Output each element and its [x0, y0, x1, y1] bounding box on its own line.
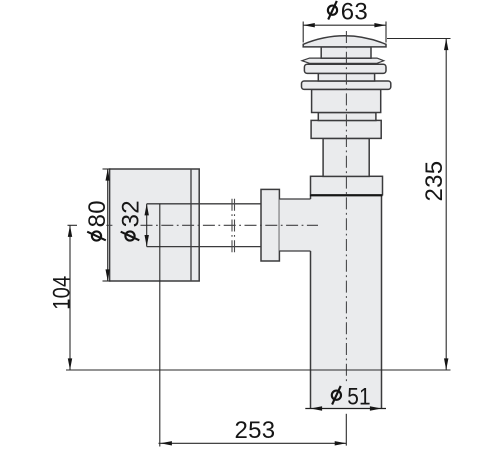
- trap top nut: [311, 176, 383, 195]
- dimension 253 right extension line (centerline extended): [345, 414, 347, 446]
- svg-text:32: 32: [118, 200, 145, 227]
- compression nut on horizontal pipe: [261, 189, 279, 261]
- dimension 253 arrows: [160, 441, 346, 445]
- label 104 (rotated): [48, 276, 75, 310]
- dimension 104 top tick: [68, 224, 78, 226]
- dimension Ø51 arrows: [311, 406, 382, 410]
- svg-text:80: 80: [84, 200, 111, 227]
- rounded ring: [304, 64, 386, 73]
- pipe cut marks (double dash-dot): [232, 199, 235, 255]
- seam line under trap nut: [310, 194, 383, 196]
- svg-text:104: 104: [48, 276, 75, 310]
- dimension Ø80 line: [107, 169, 109, 281]
- threaded body of drain: [312, 89, 381, 112]
- dimension Ø63 line: [303, 24, 386, 26]
- dimension 253 left extension line: [159, 204, 161, 447]
- horizontal pipe centerline: [141, 224, 319, 226]
- dimension 235 arrows: [444, 39, 448, 371]
- band below threaded body: [311, 120, 381, 138]
- wall flange (Ø80 body): [110, 169, 200, 281]
- dimension Ø63 arrows: [303, 23, 386, 27]
- pipe stub between nut and trap body: [279, 199, 310, 251]
- label Ø32 background mask: [118, 198, 141, 246]
- dimension Ø32 arrows: [145, 204, 149, 247]
- svg-text:235: 235: [421, 161, 448, 202]
- vertical centerline: [345, 31, 347, 384]
- dome cap: [303, 36, 386, 47]
- thin washer (lens): [302, 58, 384, 63]
- groove ring: [318, 113, 376, 121]
- wide flange ring: [302, 81, 391, 89]
- tail pipe above trap: [323, 138, 369, 176]
- dimension 104 line: [69, 225, 71, 370]
- shared bottom extension line (104 / 235): [66, 369, 451, 371]
- label Ø63: [328, 0, 368, 25]
- dimension 104 arrows: [68, 225, 72, 370]
- svg-text:63: 63: [341, 0, 368, 25]
- narrow band under rounded ring: [318, 73, 374, 81]
- dimension Ø80 extension ticks: [103, 169, 111, 281]
- svg-text:51: 51: [347, 383, 371, 410]
- dimension Ø80 arrows: [106, 169, 110, 281]
- trap body (bottle): [311, 195, 382, 409]
- dimension Ø32 line: [146, 204, 148, 247]
- inlet pipe wall lines (Ø32 pipe): [147, 204, 261, 247]
- cap neck: [321, 47, 371, 58]
- dimension Ø51 line (trap bottom): [305, 408, 386, 410]
- label Ø32 (rotated): [118, 200, 145, 241]
- label Ø51: [332, 383, 371, 410]
- label Ø80 background mask: [84, 200, 106, 244]
- horizontal pipe centerline tick at Ø80 dim line: [106, 224, 112, 226]
- dimension 253 line: [159, 442, 347, 444]
- svg-text:253: 253: [235, 417, 276, 444]
- dimension 235 top extension line: [387, 38, 451, 40]
- label Ø80 (rotated): [84, 200, 111, 241]
- label 235 (rotated): [421, 161, 448, 202]
- dimension 235 line: [445, 39, 447, 371]
- dimension Ø63 extension lines: [303, 22, 386, 43]
